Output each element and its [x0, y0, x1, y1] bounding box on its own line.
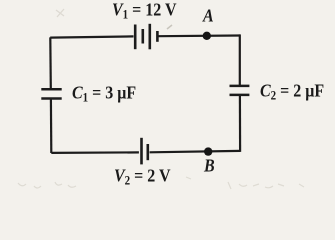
- node A: [203, 32, 211, 40]
- capacitor C2: [230, 86, 250, 95]
- faint scan smudge top-left: [56, 9, 64, 17]
- label node B: [204, 157, 215, 177]
- label node A: [203, 7, 214, 27]
- battery V2: [142, 138, 148, 165]
- wire right lower (C2 to bottom corner): [239, 95, 241, 152]
- wire bottom-left (battery V2 to corner): [51, 151, 139, 154]
- faint scan marks bottom strip: [18, 177, 304, 189]
- node B: [204, 147, 212, 155]
- label V2 = 2 V: [114, 167, 171, 187]
- capacitor C1: [41, 89, 61, 98]
- label C1 = 3 uF: [72, 84, 136, 104]
- wire bottom-right (corner to battery V2, through node B): [150, 151, 241, 152]
- label V1 = 12 V: [112, 1, 177, 21]
- wire right upper (corner to C2): [239, 34, 241, 86]
- wire top-right (battery V1 to corner, through node A): [158, 34, 240, 37]
- label C2 = 2 uF: [260, 82, 324, 102]
- wire left upper (C1 to top corner): [49, 37, 52, 89]
- battery V1: [135, 24, 157, 50]
- wire left lower (corner to C1): [50, 99, 53, 153]
- wire top-left (corner to battery V1): [50, 36, 133, 37]
- faint scan smudge near battery V1: [167, 25, 172, 29]
